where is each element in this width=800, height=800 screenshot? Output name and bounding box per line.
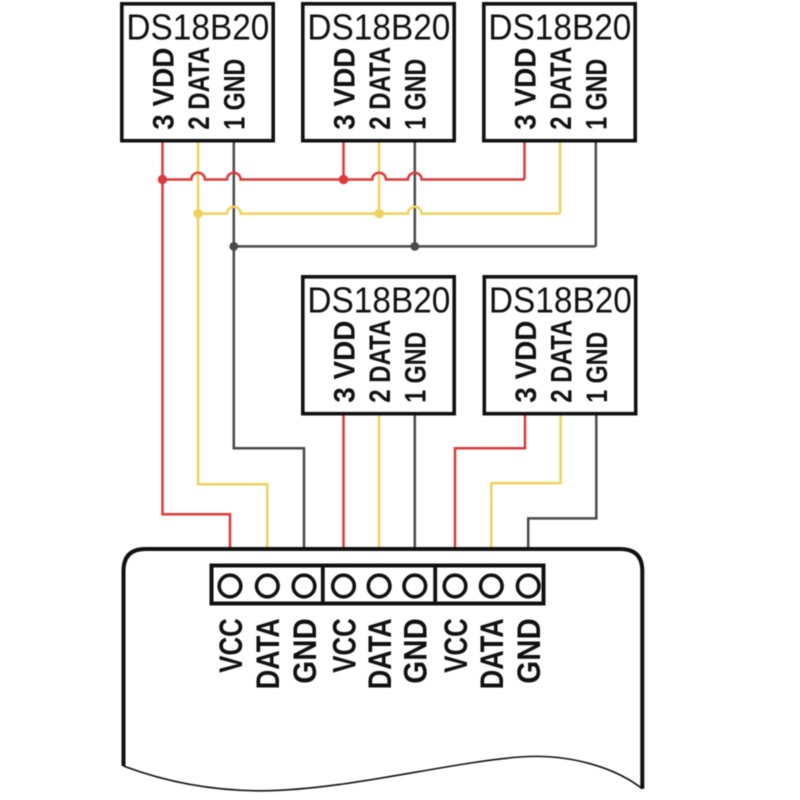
svg-text:3 VDD: 3 VDD [328, 321, 361, 403]
svg-text:3 VDD: 3 VDD [510, 321, 543, 403]
svg-text:GND: GND [398, 618, 434, 684]
wire U5 VDD down-left to controller VCC3 [455, 416, 525, 551]
svg-text:GND: GND [287, 618, 323, 684]
terminal strip block [212, 566, 544, 604]
terminal 4 screw circle [333, 575, 355, 597]
svg-text:DS18B20: DS18B20 [307, 279, 450, 320]
wire U1 GND to GND bus and down to controller GND1 [234, 143, 304, 551]
svg-text:2 DATA: 2 DATA [364, 47, 397, 130]
wire U5 DATA down-left to controller DATA3 [491, 416, 560, 551]
wire U3 VDD stub to red bus end [523, 143, 526, 180]
wire yellow DATA bus with hops [198, 207, 560, 214]
sensor U5 DS18B20 box [484, 277, 635, 414]
wire U1 VDD to VCC bus and down to controller VCC1 [163, 143, 231, 551]
svg-text:DATA: DATA [250, 618, 286, 689]
terminal strip divider 2 [433, 564, 437, 606]
sensor U3 DS18B20 box [484, 4, 635, 141]
wire U4 GND down to controller GND2 [414, 416, 417, 551]
wire U2 GND stub to black bus [414, 143, 417, 247]
svg-text:2 DATA: 2 DATA [183, 47, 216, 130]
wire U3 DATA stub to yellow bus end [559, 143, 562, 214]
terminal 5 screw circle [368, 575, 390, 597]
sensor U2 DS18B20 box [303, 4, 454, 141]
terminal 8 screw circle [481, 575, 503, 597]
wire U2 VDD stub to red bus [342, 143, 345, 180]
svg-text:1 GND: 1 GND [219, 59, 252, 130]
junction dot U1 GND / black bus [229, 242, 238, 251]
svg-text:1 GND: 1 GND [581, 59, 614, 130]
controller board torn-edge wavy line [124, 756, 643, 790]
svg-text:DS18B20: DS18B20 [489, 279, 632, 320]
svg-text:3 VDD: 3 VDD [509, 48, 542, 130]
terminal 7 screw circle [444, 575, 466, 597]
svg-text:DATA: DATA [362, 618, 398, 689]
terminal 9 screw circle [517, 575, 539, 597]
wire red VCC bus with hops [163, 173, 525, 180]
terminal 2 screw circle [257, 575, 279, 597]
svg-text:2 DATA: 2 DATA [364, 320, 397, 403]
svg-text:3 VDD: 3 VDD [328, 48, 361, 130]
svg-text:1 GND: 1 GND [400, 332, 433, 403]
terminal 3 screw circle [293, 575, 315, 597]
svg-text:VCC: VCC [326, 618, 362, 673]
wire U4 VDD down to controller VCC2 [342, 416, 345, 551]
junction dot U1 DATA / yellow bus [193, 209, 202, 218]
svg-text:DS18B20: DS18B20 [307, 6, 450, 47]
wire U3 GND stub to black bus end [595, 143, 598, 247]
svg-text:2 DATA: 2 DATA [545, 320, 578, 403]
svg-text:VCC: VCC [438, 618, 474, 673]
svg-text:DATA: DATA [474, 618, 510, 689]
svg-text:1 GND: 1 GND [581, 332, 614, 403]
terminal strip divider 1 [321, 564, 325, 606]
svg-text:1 GND: 1 GND [400, 59, 433, 130]
terminal 6 screw circle [404, 575, 426, 597]
svg-text:VCC: VCC [213, 618, 249, 673]
wire U1 DATA to DATA bus and down to controller DATA1 [198, 143, 267, 551]
wire U2 DATA stub to yellow bus [378, 143, 381, 214]
wire U4 DATA down to controller DATA2 [378, 416, 381, 551]
svg-text:DS18B20: DS18B20 [488, 6, 631, 47]
sensor U1 DS18B20 box [122, 4, 273, 141]
wire black GND bus [234, 245, 596, 248]
wire U5 GND down-left to controller GND3 [528, 416, 596, 551]
svg-text:3 VDD: 3 VDD [147, 48, 180, 130]
svg-text:2 DATA: 2 DATA [545, 47, 578, 130]
controller board outline (torn bottom edge) [124, 549, 643, 789]
terminal 1 screw circle [219, 575, 241, 597]
junction dot U1 VDD / red bus [158, 175, 167, 184]
sensor U4 DS18B20 box [303, 277, 454, 414]
junction dot U2 VDD / red bus [339, 175, 348, 184]
svg-text:GND: GND [511, 618, 547, 684]
svg-text:DS18B20: DS18B20 [126, 6, 269, 47]
junction dot U2 DATA / yellow bus [374, 209, 383, 218]
junction dot U2 GND / black bus [410, 242, 419, 251]
